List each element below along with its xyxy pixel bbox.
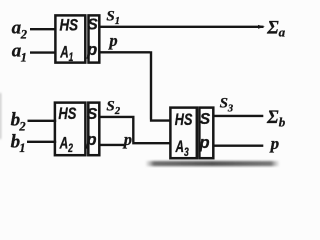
svg-text:HS: HS bbox=[60, 17, 79, 35]
wire p output from A3 bbox=[213, 144, 263, 146]
wire p from A1 to A3 top input bbox=[99, 51, 170, 120]
block A2 main box bbox=[55, 103, 86, 156]
svg-text:3: 3 bbox=[227, 103, 233, 114]
svg-text:p: p bbox=[269, 134, 280, 153]
wire input b2 bbox=[28, 120, 57, 122]
block A2 output column box bbox=[88, 103, 99, 156]
svg-text:1: 1 bbox=[21, 50, 27, 64]
block A1 output column box bbox=[89, 15, 100, 62]
svg-text:HS: HS bbox=[175, 111, 193, 129]
svg-text:S: S bbox=[200, 111, 211, 128]
svg-text:S: S bbox=[106, 9, 114, 25]
wire input a1 bbox=[30, 51, 57, 53]
svg-text:S: S bbox=[87, 106, 98, 123]
svg-text:p: p bbox=[86, 41, 97, 59]
svg-text:1: 1 bbox=[115, 16, 120, 27]
wire input b1 bbox=[27, 141, 56, 143]
block A1 main box bbox=[55, 15, 85, 62]
wire S1 to sum-a bbox=[99, 26, 263, 28]
svg-text:S: S bbox=[106, 98, 114, 114]
svg-text:a: a bbox=[279, 25, 286, 40]
svg-text:p: p bbox=[199, 134, 210, 152]
block A3 main box bbox=[170, 108, 196, 159]
svg-text:Σ: Σ bbox=[266, 18, 279, 38]
svg-text:S: S bbox=[87, 16, 98, 33]
block A3 output column box bbox=[199, 108, 213, 159]
svg-text:p: p bbox=[107, 31, 117, 50]
svg-text:b: b bbox=[279, 114, 286, 129]
svg-text:Σ: Σ bbox=[266, 108, 279, 128]
arrowhead on sum-a wire bbox=[258, 25, 265, 29]
wire p stub from A2 bbox=[99, 144, 124, 146]
svg-text:1: 1 bbox=[19, 141, 25, 155]
wire input a2 bbox=[30, 28, 57, 30]
svg-text:HS: HS bbox=[58, 105, 76, 123]
svg-text:p: p bbox=[85, 131, 96, 149]
svg-text:2: 2 bbox=[114, 106, 121, 117]
svg-text:p: p bbox=[122, 130, 132, 149]
svg-text:S: S bbox=[220, 96, 228, 112]
scan smudge bar bottom right bbox=[146, 161, 279, 166]
scan smudge left edge bbox=[0, 93, 2, 139]
wire S2 from A2 to A3 bottom input bbox=[99, 116, 170, 143]
wire S3 to sum-b bbox=[213, 115, 263, 117]
